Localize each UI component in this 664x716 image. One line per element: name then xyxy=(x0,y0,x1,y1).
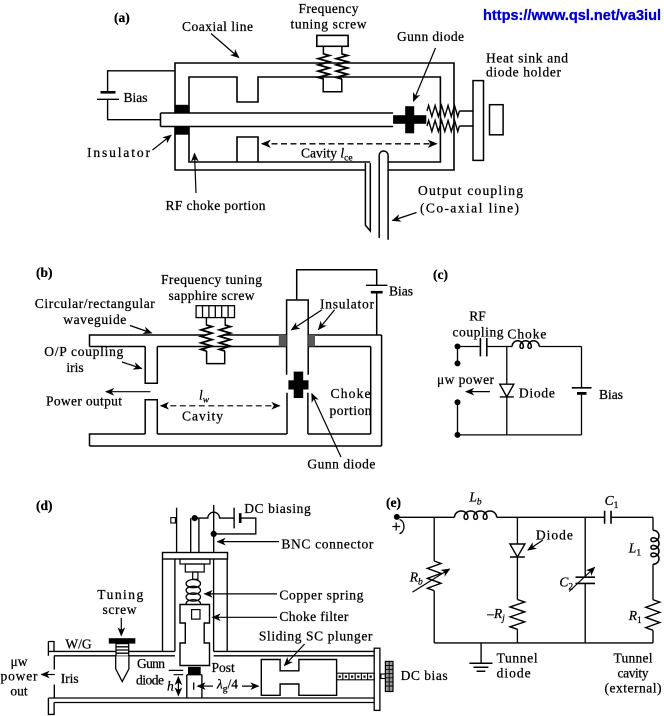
diode holder block xyxy=(490,105,504,135)
svg-text:L1: L1 xyxy=(628,541,642,559)
svg-text:μw power: μw power xyxy=(437,372,495,387)
svg-text:Tuning: Tuning xyxy=(97,587,143,602)
plus sign xyxy=(392,523,400,531)
waveguide right flange xyxy=(374,648,380,710)
Rb branch wires xyxy=(433,517,435,643)
arrow iris label xyxy=(122,362,142,369)
arrow copper spring xyxy=(205,593,278,595)
ground symbol xyxy=(469,663,492,671)
svg-text:Insulator: Insulator xyxy=(320,297,375,312)
BNC left pin xyxy=(176,508,178,553)
arrow insulator left xyxy=(292,310,323,330)
arrow insulator xyxy=(153,135,172,150)
top wire with capacitor gap xyxy=(458,346,582,348)
svg-text:power: power xyxy=(1,669,39,684)
svg-text:Gunn diode: Gunn diode xyxy=(397,29,464,44)
svg-text:(b): (b) xyxy=(36,265,53,280)
Rj zigzag xyxy=(510,600,525,630)
svg-text:Bias: Bias xyxy=(599,387,623,402)
svg-text:Diode: Diode xyxy=(519,386,555,401)
screw thread right (b) xyxy=(219,325,230,351)
svg-text:DC biasing: DC biasing xyxy=(244,501,311,516)
screw neck (b) xyxy=(206,318,225,326)
BNC housing plate xyxy=(163,553,228,560)
dc bias wire with hump xyxy=(195,512,256,534)
BNC center pins xyxy=(191,518,199,552)
L1 coil xyxy=(651,530,659,564)
svg-text:portion: portion xyxy=(330,403,372,418)
screw thread left (b) xyxy=(201,325,212,351)
R1 zigzag xyxy=(646,600,660,631)
svg-text:C2: C2 xyxy=(559,575,573,593)
svg-text:(c): (c) xyxy=(433,267,448,282)
C1 capacitor xyxy=(605,511,611,524)
copper spring coil xyxy=(186,580,200,608)
svg-text:out: out xyxy=(10,684,28,699)
svg-text:Output coupling: Output coupling xyxy=(418,183,523,198)
insulator black blocks xyxy=(174,105,189,113)
svg-text:Sliding SC plunger: Sliding SC plunger xyxy=(259,629,373,644)
svg-text:waveguide: waveguide xyxy=(63,312,126,327)
node dots xyxy=(455,344,461,438)
Lb coil xyxy=(455,511,497,519)
power output arrow xyxy=(106,391,150,393)
svg-text:(external): (external) xyxy=(605,681,662,696)
svg-text:Choke filter: Choke filter xyxy=(279,609,349,624)
bottom wire (e) xyxy=(434,642,653,644)
battery Bias (a) xyxy=(101,91,116,94)
svg-text:diode: diode xyxy=(497,666,531,681)
svg-text:W/G: W/G xyxy=(65,637,91,652)
arrow choke filter xyxy=(213,616,278,618)
svg-text:Power output: Power output xyxy=(46,394,122,409)
lambda right arrow xyxy=(242,685,259,687)
diode arrow (e) xyxy=(528,540,543,550)
Rb zigzag xyxy=(427,561,441,591)
svg-text:–Rj: –Rj xyxy=(486,606,505,624)
output probe dome xyxy=(379,151,388,240)
h dim ticks xyxy=(169,670,184,674)
bottom wire (c) xyxy=(458,434,582,436)
svg-text:C1: C1 xyxy=(605,493,619,511)
svg-text:iris: iris xyxy=(66,360,83,375)
svg-text:Bias: Bias xyxy=(389,284,413,299)
frequency tuning screw head xyxy=(317,35,348,46)
svg-text:(d): (d) xyxy=(36,498,53,513)
svg-text:(Co-axial line): (Co-axial line) xyxy=(420,201,519,216)
C2 capacitor xyxy=(576,577,596,583)
right wire + bias battery xyxy=(581,347,583,435)
arrow insulator right xyxy=(319,310,335,330)
bias wire (b) xyxy=(297,270,377,335)
svg-text:tuning screw: tuning screw xyxy=(291,17,367,32)
gunn diode cross (b) xyxy=(288,372,308,398)
sapphire screw head xyxy=(196,306,234,318)
coaxial outer box xyxy=(175,63,454,170)
insulator gray blocks xyxy=(279,335,287,347)
svg-text:https://www.qsl.net/va3iul: https://www.qsl.net/va3iul xyxy=(483,7,661,24)
arrow uw power out xyxy=(42,674,55,676)
tuning screw tip xyxy=(116,656,129,681)
svg-text:Heat sink and: Heat sink and xyxy=(486,51,568,66)
battery bias (c) xyxy=(572,387,592,389)
svg-text:Choke: Choke xyxy=(507,327,546,342)
choke right walls xyxy=(371,335,382,446)
input node dot xyxy=(394,514,400,520)
choke coil xyxy=(512,341,539,349)
iris plate (d) xyxy=(53,656,55,698)
svg-text:lw: lw xyxy=(199,388,210,406)
BNC center line xyxy=(213,505,215,553)
uw power arrow (c) xyxy=(466,391,490,393)
diode branch xyxy=(506,347,508,435)
svg-text:Cavity lce: Cavity lce xyxy=(301,146,353,164)
dc battery (d) xyxy=(233,508,235,529)
svg-text:(a): (a) xyxy=(114,10,130,25)
svg-text:Tunnel: Tunnel xyxy=(614,651,653,666)
svg-text:RF: RF xyxy=(469,309,486,324)
bias wire bottom xyxy=(108,99,161,119)
wires to heat sink xyxy=(459,111,473,126)
arrow tuning screw xyxy=(120,618,122,636)
battery bias (b) xyxy=(366,284,388,286)
lambda left arrow xyxy=(198,685,214,687)
tuning screw stub into cavity xyxy=(323,79,342,92)
svg-text:DC bias: DC bias xyxy=(401,668,448,683)
diode post xyxy=(287,393,308,434)
svg-text:sapphire screw: sapphire screw xyxy=(169,288,255,303)
bias rod xyxy=(287,300,309,375)
gunn diode block (d) xyxy=(188,667,201,674)
coaxial inner box xyxy=(189,77,440,162)
svg-text:Insulator: Insulator xyxy=(87,145,151,160)
output coax wall xyxy=(365,163,370,231)
screw thread right xyxy=(336,54,347,79)
h dim arrow xyxy=(177,677,179,696)
top wire (e) xyxy=(397,516,653,518)
dc bias knurled knob xyxy=(385,661,393,691)
heat-sink spring bottom xyxy=(427,121,459,132)
arrow rf choke xyxy=(195,154,197,194)
lambda tick xyxy=(193,683,195,690)
waveguide bottom wall (d) xyxy=(48,698,374,714)
RF choke block lower xyxy=(237,137,258,162)
svg-text:RF choke portion: RF choke portion xyxy=(166,198,266,213)
cavity dashed arrow xyxy=(262,143,437,145)
arrow gunn diode (b) xyxy=(312,394,341,457)
svg-text:Cavity: Cavity xyxy=(182,409,223,424)
diode symbol (e) xyxy=(510,544,525,557)
svg-text:μw: μw xyxy=(11,654,28,669)
svg-text:h: h xyxy=(167,679,174,694)
svg-text:Frequency tuning: Frequency tuning xyxy=(161,272,262,287)
node dot B xyxy=(211,531,217,537)
RF coupling capacitor xyxy=(480,338,486,356)
right branch wires xyxy=(652,517,654,643)
svg-text:screw: screw xyxy=(103,602,137,617)
svg-text:Circular/rectangular: Circular/rectangular xyxy=(35,296,156,311)
svg-text:Diode: Diode xyxy=(536,528,573,543)
spring end stub in choke xyxy=(192,610,200,620)
C2 branch wires xyxy=(584,517,586,643)
svg-text:R1: R1 xyxy=(628,608,642,626)
arrow gunn diode xyxy=(414,48,436,101)
ground stub xyxy=(480,643,482,663)
bias wire top xyxy=(108,71,175,93)
iris slot hanging xyxy=(145,347,157,384)
Rb arrow xyxy=(413,569,450,592)
arrow output coupling xyxy=(393,213,417,221)
heat-sink spring top xyxy=(427,106,459,117)
svg-text:diode holder: diode holder xyxy=(486,65,562,80)
svg-text:O/P coupling: O/P coupling xyxy=(44,344,123,359)
svg-text:diode: diode xyxy=(136,673,164,688)
svg-text:Frequency: Frequency xyxy=(299,1,359,16)
svg-text:coupling: coupling xyxy=(453,325,504,340)
screw thread left xyxy=(318,54,329,79)
connector rod xyxy=(193,572,198,579)
svg-text:BNC connector: BNC connector xyxy=(281,537,374,552)
cavity left post xyxy=(145,400,157,434)
diode symbol (c) xyxy=(500,384,514,397)
svg-text:Coaxial line: Coaxial line xyxy=(182,19,253,34)
svg-text:Tunnel: Tunnel xyxy=(497,651,538,666)
waveguide bottom wall xyxy=(90,434,382,446)
BNC left pin tab xyxy=(171,518,176,523)
waveguide top wall lower line xyxy=(90,346,371,348)
node dot A xyxy=(192,515,198,521)
arrow coaxial line xyxy=(211,34,239,58)
housing walls xyxy=(163,559,228,651)
BNC inner connector xyxy=(180,559,210,564)
arrow sliding plunger xyxy=(285,644,305,666)
svg-text:Gunn diode: Gunn diode xyxy=(307,457,375,472)
left port stubs xyxy=(457,347,459,435)
svg-text:λg/4: λg/4 xyxy=(216,677,238,695)
svg-text:Rb: Rb xyxy=(409,570,423,588)
Gunn diode cross (a) xyxy=(393,106,426,133)
center conductor xyxy=(161,113,394,127)
waveguide top wall (d) xyxy=(48,642,374,656)
svg-text:Gunn: Gunn xyxy=(137,656,165,671)
tuning screw head (d) xyxy=(109,638,136,643)
heat sink plate xyxy=(473,81,484,161)
screw stub below wall xyxy=(207,351,225,364)
svg-text:Choke: Choke xyxy=(331,386,371,401)
svg-text:Iris: Iris xyxy=(61,671,79,686)
arrow BNC connector xyxy=(218,541,280,543)
choke filter body xyxy=(180,605,210,666)
post (d) xyxy=(187,675,202,698)
input arc xyxy=(400,520,405,534)
arrow waveguide label xyxy=(130,326,152,334)
waveguide top wall upper line xyxy=(90,335,382,347)
diode branch wires (e) xyxy=(516,517,518,643)
svg-text:(e): (e) xyxy=(386,495,401,510)
svg-text:Copper spring: Copper spring xyxy=(279,588,363,603)
svg-text:Bias: Bias xyxy=(124,90,148,105)
dc bias knob small square xyxy=(381,674,386,679)
plunger screw rod xyxy=(337,673,375,680)
C2 arrow xyxy=(569,568,594,592)
svg-text:Lb: Lb xyxy=(468,490,482,508)
svg-text:Post: Post xyxy=(212,660,236,675)
lw dashed arrow xyxy=(161,405,280,407)
tuning screw threads xyxy=(116,644,129,657)
sliding SC plunger xyxy=(261,660,336,696)
svg-text:cavity: cavity xyxy=(618,666,649,681)
